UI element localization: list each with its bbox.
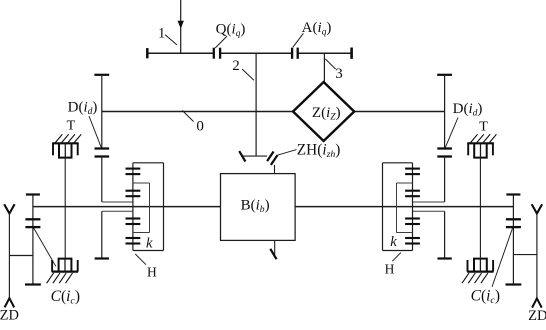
svg-text:B(ib): B(ib) <box>241 198 270 216</box>
svg-text:D(id): D(id) <box>453 101 483 119</box>
svg-text:2: 2 <box>232 58 240 74</box>
svg-text:D(id): D(id) <box>68 100 98 118</box>
svg-text:T: T <box>67 118 76 133</box>
svg-text:H: H <box>385 262 395 277</box>
svg-text:k: k <box>390 234 397 250</box>
svg-text:k: k <box>146 235 153 251</box>
svg-text:A(iq): A(iq) <box>302 20 332 38</box>
svg-text:C(ic): C(ic) <box>471 287 500 306</box>
svg-text:Q(iq): Q(iq) <box>216 21 246 39</box>
svg-text:ZD: ZD <box>528 308 546 324</box>
svg-text:0: 0 <box>196 119 204 135</box>
svg-text:Z(iZ): Z(iZ) <box>312 105 341 123</box>
svg-text:ZD: ZD <box>0 308 19 324</box>
svg-text:C(ic): C(ic) <box>51 288 80 307</box>
svg-text:H: H <box>147 265 157 280</box>
svg-text:1: 1 <box>158 26 165 42</box>
svg-text:T: T <box>479 120 488 135</box>
svg-text:3: 3 <box>335 66 343 82</box>
